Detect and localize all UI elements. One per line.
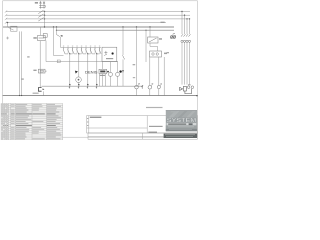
text bus end label — [161, 22, 165, 23]
text pin number — [67, 45, 68, 48]
text pin number — [94, 45, 95, 48]
node ctrl tap 1 — [53, 26, 54, 27]
wire K1 feed — [102, 62, 104, 70]
text Q1 label — [35, 2, 38, 4]
title block bottom row — [88, 133, 197, 139]
wire bus L2 — [6, 14, 190, 16]
text U1 label — [164, 53, 167, 55]
switch pole contact — [38, 10, 43, 14]
node pole junction — [44, 11, 45, 12]
contact element — [77, 48, 79, 54]
wire K1 pin — [102, 74, 104, 87]
wire ctrl v1 — [54, 27, 64, 56]
lamp H3 — [148, 84, 153, 89]
text K1 sub — [100, 75, 106, 76]
node PE tap — [44, 26, 45, 27]
wire T1 to U1 — [150, 43, 158, 51]
node rail junction — [96, 53, 97, 54]
switch S1 actuator — [60, 35, 62, 37]
text H6 sup — [138, 83, 140, 84]
text rail labels — [33, 93, 39, 94]
contact element — [63, 48, 65, 54]
wire U1 out 1 — [149, 57, 151, 85]
node ctrl tap 2 — [56, 26, 57, 27]
wire lamp H2 out — [117, 76, 119, 86]
wire bus L3 — [6, 18, 190, 20]
wire U1 out 3 — [163, 57, 165, 96]
switch S1 contact — [57, 35, 60, 37]
wire drop to terminals — [69, 54, 71, 86]
motor connector circles — [170, 33, 175, 38]
text B1 label — [33, 70, 36, 71]
wire feed drop — [8, 23, 14, 31]
text left column marks — [87, 118, 88, 126]
wire PSU out a — [39, 41, 41, 88]
text B2 label — [106, 58, 113, 59]
text page note — [146, 107, 163, 108]
text pin number — [72, 45, 73, 48]
wire drop to terminals — [87, 54, 89, 86]
float switch B1 — [38, 69, 46, 73]
text Y1 label — [188, 84, 191, 85]
plug contact 3 — [186, 34, 188, 36]
transformer T1 — [148, 37, 158, 43]
address band — [164, 134, 197, 138]
wire branch upper — [122, 27, 124, 55]
wire control rail — [46, 61, 118, 63]
wire drop to terminals — [96, 54, 98, 86]
terminal x143 mark — [141, 85, 143, 89]
node B2 dot — [112, 52, 114, 54]
wire contact rail top — [61, 47, 101, 49]
wire T1 feed — [149, 27, 151, 37]
node long tap — [136, 26, 137, 27]
socket pin 2 — [183, 40, 185, 42]
contact element — [68, 48, 70, 54]
wire lamp H1 out — [110, 76, 112, 86]
text rev field a — [149, 126, 163, 127]
gauge P1 — [75, 71, 81, 83]
node pole junction — [44, 15, 45, 16]
text H4 sup — [160, 83, 162, 84]
wire chain link — [83, 53, 86, 55]
text pin number — [63, 45, 64, 48]
text pin number — [90, 45, 91, 48]
wire phase drop 1 lower — [181, 42, 183, 84]
relay coil K1 — [99, 69, 107, 73]
svg-text:DENIS: DENIS — [85, 70, 98, 74]
contact element — [90, 48, 92, 54]
contact K contact — [123, 55, 125, 59]
wire ctrl v3 lower — [60, 37, 62, 48]
wire PSU out b — [45, 41, 47, 62]
text pin number — [76, 45, 77, 48]
lamp H6 — [135, 84, 140, 89]
lamp H5 — [187, 86, 193, 89]
node pole junction — [44, 18, 45, 19]
power supply G1 24V — [38, 34, 48, 41]
contact element — [99, 48, 101, 54]
node L2 left terminal — [5, 14, 7, 16]
wire chain link — [78, 53, 81, 55]
node aux tap — [145, 30, 146, 31]
terminal clamp — [69, 84, 71, 88]
wire long vertical b — [136, 89, 138, 96]
junction box mark — [57, 60, 60, 63]
lamp H4 — [157, 84, 161, 88]
wire bottom rail — [3, 95, 198, 97]
wire phase drop 3 upper — [186, 19, 188, 34]
wire chain link — [69, 53, 72, 55]
ground PE mark — [6, 37, 9, 40]
text x133 label — [133, 77, 135, 78]
node rail junction — [78, 53, 79, 54]
socket pin 3 — [186, 40, 188, 42]
wire socket to rail — [43, 91, 45, 95]
wire switch drop — [44, 11, 46, 27]
text x136 label — [133, 64, 136, 65]
contact element — [86, 48, 88, 54]
wire terminal rail X1 — [42, 85, 144, 87]
node phase tap 4 — [189, 18, 190, 19]
rectifier U1 — [150, 51, 162, 57]
border frame — [3, 1, 198, 137]
thermostat B2 — [102, 47, 117, 61]
text pin number — [99, 45, 100, 48]
text rev field b — [148, 132, 157, 133]
terminal clamp — [96, 84, 98, 88]
wire PE riser left — [19, 31, 21, 95]
text PSU label — [33, 37, 36, 39]
wire U1 out 2 — [158, 57, 160, 86]
lamp H2 — [116, 72, 120, 76]
wire K1 pin — [99, 74, 101, 87]
node dark dot — [119, 70, 121, 72]
text label left low — [21, 78, 24, 79]
wire phase drop 1 upper — [181, 12, 183, 35]
wire chain link — [92, 53, 95, 55]
plug contact 1 — [181, 34, 183, 36]
wire phase drop 4 upper — [189, 19, 191, 34]
title block frame — [87, 116, 198, 133]
wire bus L1 — [6, 11, 190, 13]
socket pin 1 — [181, 40, 183, 42]
node L4 left terminal — [5, 22, 7, 24]
wire bus L4 — [6, 22, 166, 24]
wire chain link — [74, 53, 77, 55]
wire phase drop 3 lower — [186, 42, 188, 84]
node N tap — [7, 22, 8, 23]
wire bus ctrl2 — [57, 29, 175, 31]
text H3 sup — [152, 83, 154, 84]
wire lamp H1 feed — [110, 62, 112, 73]
wire U1 out 1b — [149, 89, 151, 95]
terminal clamp — [87, 84, 89, 88]
switch pole contact — [38, 18, 43, 22]
main switch Q1 — [39, 1, 45, 9]
node phase tap 3 — [186, 18, 187, 19]
text pin number — [85, 45, 86, 48]
switch pole contact — [38, 14, 43, 18]
contact element — [81, 48, 83, 54]
parts list table — [1, 103, 63, 140]
node bottom right — [196, 95, 197, 96]
wire U1 out 2b — [158, 89, 160, 96]
contact element — [72, 48, 74, 54]
plug contact 4 — [189, 34, 191, 36]
node K1 diamond — [107, 71, 109, 73]
text label left mid — [27, 56, 29, 57]
text T1 label — [159, 38, 162, 40]
arrow actuator — [122, 70, 124, 73]
node rail junction — [69, 53, 70, 54]
wire long vertical — [136, 27, 138, 85]
wire chain link — [65, 53, 68, 55]
node phase tap 1 — [181, 11, 182, 12]
wire N riser left — [21, 31, 23, 95]
socket X0 — [38, 88, 44, 92]
logo SYSTEM — [166, 110, 197, 131]
wire lamp H2 feed — [117, 62, 119, 73]
node phase tap 2 — [184, 15, 185, 16]
wire phase drop 2 upper — [184, 15, 186, 34]
wire PSU feed a — [40, 27, 42, 35]
wire chain link — [96, 53, 99, 55]
terminal clamp — [78, 84, 80, 88]
text title field — [90, 117, 102, 118]
wire chain link — [87, 53, 90, 55]
plug contact 2 — [184, 34, 186, 36]
text pin number — [81, 45, 82, 48]
wire ctrl v2 — [56, 27, 58, 35]
lamp H1 — [109, 72, 113, 76]
socket pin 4 — [188, 40, 190, 42]
wire K1 pin — [104, 74, 106, 87]
text connector label — [167, 52, 169, 53]
node rail left dots — [19, 95, 20, 96]
node L3 left terminal — [5, 18, 7, 20]
wire aux vertical — [145, 30, 147, 62]
wire phase drop 4 lower — [189, 42, 191, 84]
node branch tap — [122, 26, 123, 27]
wire drop to terminals — [78, 54, 80, 86]
wire phase drop 2 lower — [184, 42, 186, 84]
wire branch lower — [122, 59, 124, 86]
node T1 tap — [149, 26, 150, 27]
node rail junction — [87, 53, 88, 54]
wire bus PE — [3, 26, 174, 28]
valve Y1 — [180, 86, 192, 93]
contact element — [95, 48, 97, 54]
node L1 left terminal — [5, 10, 7, 12]
cable marker W1 — [11, 26, 17, 31]
